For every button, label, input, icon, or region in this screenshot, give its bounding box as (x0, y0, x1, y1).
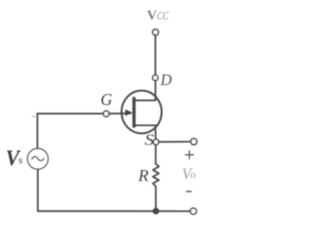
svg-text:R: R (137, 166, 149, 185)
svg-text:o: o (190, 169, 196, 181)
svg-text:V: V (147, 7, 157, 22)
svg-text:S: S (145, 132, 154, 149)
svg-text:D: D (159, 72, 172, 89)
svg-text:G: G (101, 90, 113, 109)
svg-text:s: s (18, 155, 22, 167)
svg-text:CC: CC (157, 11, 169, 23)
